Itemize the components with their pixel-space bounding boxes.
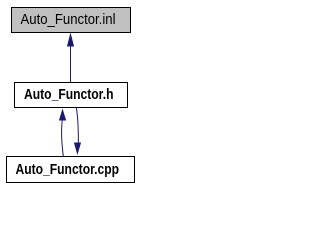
svg-text:Auto_Functor.h: Auto_Functor.h — [24, 87, 114, 103]
edge arrow: Auto_Functor.cpp -> Auto_Functor.h (up, left spline) — [59, 109, 66, 157]
node Auto_Functor.cpp (white box, bold label) — [7, 157, 135, 183]
svg-text:Auto_Functor.cpp: Auto_Functor.cpp — [16, 162, 120, 178]
node Auto_Functor.inl (gray filled box) — [12, 8, 131, 33]
node Auto_Functor.h (white box, bold label) — [15, 83, 128, 108]
svg-text:Auto_Functor.inl: Auto_Functor.inl — [21, 12, 116, 28]
edge arrow: Auto_Functor.h -> Auto_Functor.cpp (down, right spline) — [74, 108, 81, 156]
edge arrow: Auto_Functor.h -> Auto_Functor.inl (up) — [67, 33, 74, 83]
